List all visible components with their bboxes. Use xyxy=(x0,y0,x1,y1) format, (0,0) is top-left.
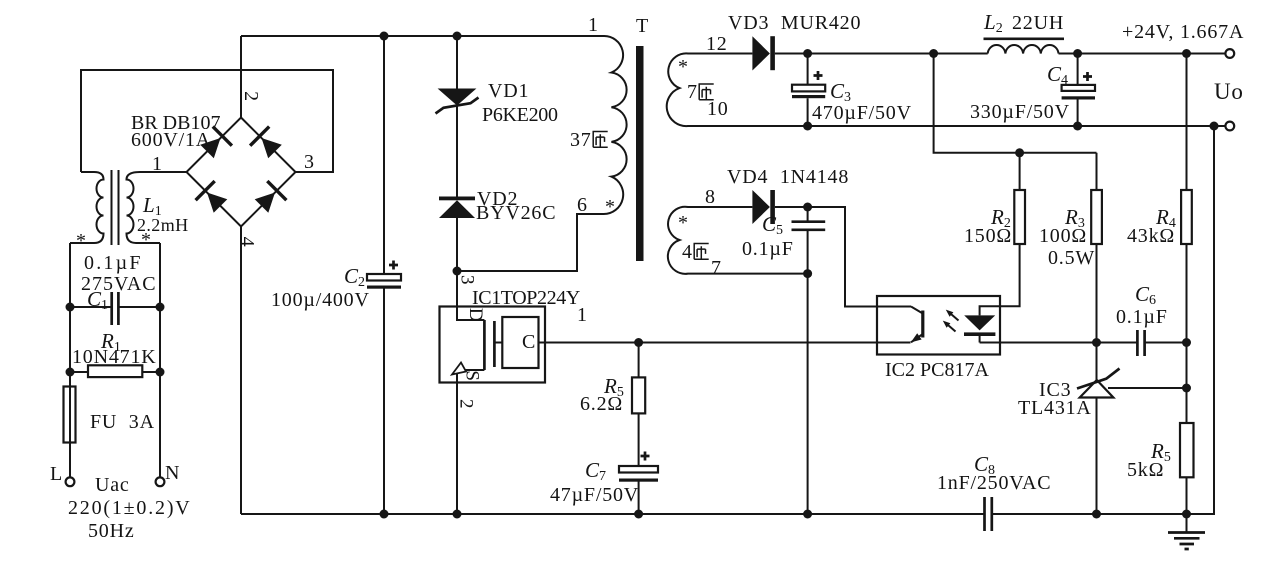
node: junction dot C5 top xyxy=(803,203,812,212)
capacitor C3 negative plate xyxy=(792,95,825,98)
node: junction dot C7 ground xyxy=(634,510,643,519)
svg-text:1: 1 xyxy=(152,153,163,175)
svg-text:7: 7 xyxy=(687,81,698,103)
node: junction dot IC1 source ground xyxy=(453,510,462,519)
terminal N open circle xyxy=(156,477,165,486)
resistor R5 (6.2 ohm) wires xyxy=(638,343,640,467)
transformer T secondary 4-turn bias winding xyxy=(668,207,808,274)
svg-text:VD1: VD1 xyxy=(488,80,529,102)
wire: IC1 pin 1 control wire across to optocoupler emitter xyxy=(539,342,911,344)
svg-text:12: 12 xyxy=(706,33,728,55)
svg-text:*: * xyxy=(76,230,87,252)
svg-text:6.2Ω: 6.2Ω xyxy=(580,393,623,415)
inductor L1 left winding (common-mode choke) xyxy=(70,172,104,243)
resistor R5 (5k) body xyxy=(1180,423,1194,477)
svg-text:100Ω: 100Ω xyxy=(1039,225,1087,247)
node: junction dot bias return ground xyxy=(803,510,812,519)
shunt regulator IC3 TL431A triangle xyxy=(1080,380,1114,398)
capacitor C5 wires xyxy=(807,207,809,274)
svg-text:N: N xyxy=(165,462,180,484)
svg-text:IC2 PC817A: IC2 PC817A xyxy=(885,359,989,381)
svg-text:47µF/50V: 47µF/50V xyxy=(550,484,639,506)
wire: gate to control block xyxy=(494,342,502,344)
node: junction dot 0V rail corner xyxy=(1210,122,1219,131)
capacitor C7 negative plate xyxy=(619,479,658,482)
svg-text:+24V, 1.667A: +24V, 1.667A xyxy=(1122,21,1244,43)
node: junction dot ref/divider xyxy=(1182,384,1191,393)
svg-text:10N471K: 10N471K xyxy=(72,346,157,368)
resistor R4 wires xyxy=(1186,54,1188,424)
svg-text:FU 3A: FU 3A xyxy=(90,411,155,433)
svg-text:22UH: 22UH xyxy=(1012,12,1064,34)
IC1 control block box with C pin xyxy=(502,317,538,368)
capacitor C3 positive plate xyxy=(792,85,825,92)
diode VD2 cathode bar xyxy=(439,197,475,201)
transistor inside IC2: collector lead xyxy=(911,307,923,314)
svg-text:330µF/50V: 330µF/50V xyxy=(970,101,1070,123)
wire: C1 box right edge down to N terminal xyxy=(159,243,161,477)
wire: R5 (5k) to ground rail xyxy=(1186,477,1188,514)
terminal 0V open circle xyxy=(1225,122,1234,131)
light arrow 2 head xyxy=(943,321,951,328)
wire: bridge corner 4 down to primary ground rail xyxy=(240,227,242,515)
node: junction dot R1 left xyxy=(66,368,75,377)
terminal +24V open circle xyxy=(1225,49,1234,58)
wire: primary ground rail to C8 xyxy=(241,513,985,515)
optocoupler IC2 PC817A box xyxy=(877,296,1000,355)
diode bridge arm top-left xyxy=(200,138,220,158)
svg-text:4: 4 xyxy=(236,237,258,248)
svg-text:7: 7 xyxy=(711,257,722,279)
inductor L1 right winding xyxy=(127,172,187,243)
wire: top rail down to bridge corner 2 xyxy=(240,36,242,118)
fuse FU body xyxy=(64,387,76,443)
node: junction dot TL431 cathode on feedback wire xyxy=(1092,338,1101,347)
svg-text:IC1TOP224Y: IC1TOP224Y xyxy=(472,287,580,309)
svg-text:3: 3 xyxy=(304,151,315,173)
capacitor C2 positive plate xyxy=(367,274,401,281)
wire: L2 to +24V terminal xyxy=(1059,53,1226,55)
capacitor C4 wires xyxy=(1077,54,1079,127)
diode VD2 triangle xyxy=(439,200,475,218)
node: junction dot R1 right xyxy=(156,368,165,377)
varistor R1 body xyxy=(88,365,142,377)
shunt regulator IC3 TL431A cathode bar xyxy=(1077,369,1120,389)
svg-text:L: L xyxy=(50,463,63,485)
node: junction dot R2 top xyxy=(1015,148,1024,157)
svg-text:150Ω: 150Ω xyxy=(964,225,1012,247)
TVS diode VD1 triangle xyxy=(438,89,477,106)
inductor L2 winding bumps xyxy=(988,45,1059,53)
capacitor C5 plates xyxy=(792,222,826,230)
wire: VD3 cathode to L2 xyxy=(775,53,988,55)
svg-text:VD3 MUR420: VD3 MUR420 xyxy=(728,12,861,34)
capacitor C4 negative plate xyxy=(1062,96,1095,99)
transformer T core bar xyxy=(636,46,644,261)
plus sign C2 xyxy=(389,261,398,270)
resistor R4 body xyxy=(1181,190,1192,244)
wire: feedback tap down and across to R2/R3 xyxy=(934,54,1097,153)
ground symbol xyxy=(1186,514,1188,532)
svg-text:T: T xyxy=(636,15,649,37)
resistor R3 body xyxy=(1091,190,1102,244)
terminal L open circle xyxy=(66,477,75,486)
plus sign C3 xyxy=(814,71,823,80)
node: junction dot C4 tap xyxy=(1073,49,1082,58)
wire: IC1 pin 3 drain entry xyxy=(457,271,484,320)
diode bridge arm bottom-left xyxy=(207,193,227,213)
svg-text:5kΩ: 5kΩ xyxy=(1127,459,1164,481)
svg-text:C: C xyxy=(522,331,536,353)
svg-text:*: * xyxy=(678,212,689,234)
wire: primary top rail from bridge + output into transformer pin 1, primary winding of T, down to pin 6 elbow and IC1 drain node xyxy=(241,36,627,271)
LED inside IC2 triangle xyxy=(964,315,995,330)
wire: routing box from bridge corner 3 up over to L1 left winding top xyxy=(81,70,333,172)
diode bridge arm top-right xyxy=(262,138,282,158)
node: junction dot C4 on 0V rail xyxy=(1073,122,1082,131)
LED inside IC2 cathode bar xyxy=(964,332,995,336)
svg-text:*: * xyxy=(141,229,152,251)
svg-text:0.5W: 0.5W xyxy=(1048,247,1095,269)
wire: IC1 source lead to pin 2 xyxy=(457,370,484,514)
svg-text:37: 37 xyxy=(570,129,592,151)
diode VD3 MUR420 triangle xyxy=(752,36,770,70)
transformer T secondary 7-turn winding and 0V rail to output terminal xyxy=(667,53,1226,126)
svg-text:6: 6 xyxy=(577,194,588,216)
wire: LED cathode down to feedback wire xyxy=(979,336,981,343)
svg-text:VD4 1N4148: VD4 1N4148 xyxy=(727,166,849,188)
svg-text:S: S xyxy=(462,370,483,381)
capacitor C1 plates xyxy=(112,292,119,325)
wire: C1 box left edge down to L terminal xyxy=(69,243,71,477)
svg-text:10: 10 xyxy=(707,98,729,120)
light arrow 1 shaft xyxy=(949,312,959,321)
transistor inside IC2: base bar xyxy=(921,311,924,338)
svg-text:1nF/250VAC: 1nF/250VAC xyxy=(937,472,1051,494)
node: junction dot C2 tap on top rail xyxy=(380,32,389,41)
TVS diode VD1 zener bar xyxy=(436,98,479,114)
bridge rectifier BR DB107 diamond xyxy=(187,118,296,227)
svg-text:0.1µF: 0.1µF xyxy=(84,252,143,274)
svg-text:8: 8 xyxy=(705,186,716,208)
capacitor C2 wires xyxy=(383,36,385,514)
wire: TL431 anode to ground rail xyxy=(1096,398,1098,515)
node: junction dot C3 tap on +V rail xyxy=(803,49,812,58)
capacitor C4 positive plate xyxy=(1062,85,1095,91)
svg-text:600V/1A: 600V/1A xyxy=(131,129,211,151)
plus sign C7 xyxy=(641,452,650,461)
resistor R5 (6.2 ohm) body xyxy=(632,377,645,413)
node: junction dot R5 ground xyxy=(1182,510,1191,519)
capacitor C3 wires xyxy=(807,54,809,127)
svg-text:1: 1 xyxy=(588,14,599,36)
svg-text:3: 3 xyxy=(457,275,478,285)
node: junction dot R5 tap on control wire xyxy=(634,338,643,347)
wire: VD2 anode down to drain node xyxy=(456,218,458,271)
transistor Q inside IC1: source arrow xyxy=(452,363,466,375)
svg-text:TL431A: TL431A xyxy=(1018,397,1092,419)
inductor L2 label underline xyxy=(984,37,1065,40)
svg-text:220(1±0.2)V: 220(1±0.2)V xyxy=(68,497,192,519)
svg-text:2: 2 xyxy=(456,399,477,409)
plus sign C4 xyxy=(1083,72,1092,81)
capacitor C6 plates xyxy=(1137,330,1144,356)
resistor R2 body xyxy=(1014,190,1025,244)
svg-text:BYV26C: BYV26C xyxy=(476,202,556,224)
wire: VD4 cathode across and down to optocoupler collector xyxy=(775,207,911,307)
resistor R2 wires xyxy=(980,153,1020,316)
node: junction dot R4 tap xyxy=(1182,49,1191,58)
node: junction dot bias winding return xyxy=(803,269,812,278)
diode VD4 cathode bar xyxy=(770,190,775,224)
capacitor C8 plates xyxy=(985,497,992,531)
svg-text:D: D xyxy=(465,308,486,322)
TVS diode VD1 wires xyxy=(456,36,458,197)
transistor Q inside IC1: drain bar xyxy=(483,320,486,370)
node: junction dot VD1 tap on top rail xyxy=(453,32,462,41)
svg-text:1: 1 xyxy=(577,304,588,326)
node: junction dot C1 left xyxy=(66,303,75,312)
node: junction dot C1 right xyxy=(156,303,165,312)
varistor R1 row wire xyxy=(70,371,160,373)
diode VD3 cathode bar xyxy=(770,36,775,70)
wire: C6 right to divider node xyxy=(1145,342,1187,344)
svg-text:50Hz: 50Hz xyxy=(88,520,135,542)
resistor R3 wires xyxy=(1096,153,1098,383)
svg-text:2: 2 xyxy=(240,91,262,102)
light arrow 1 head xyxy=(946,310,954,317)
wire: TL431 ref to divider xyxy=(1108,387,1187,389)
svg-text:Uo: Uo xyxy=(1214,79,1244,104)
svg-text:0.1µF: 0.1µF xyxy=(742,238,794,260)
svg-text:*: * xyxy=(678,56,689,78)
capacitor C7 positive plate xyxy=(619,466,658,473)
svg-text:P6KE200: P6KE200 xyxy=(482,104,558,126)
node: junction dot C3 on 0V rail xyxy=(803,122,812,131)
transistor inside IC2: emitter arrow xyxy=(911,333,922,342)
svg-text:*: * xyxy=(605,196,616,218)
node: junction dot drain node (IC1 pin 3) xyxy=(453,267,462,276)
capacitor C2 negative plate xyxy=(367,286,401,289)
node: junction dot C2 ground xyxy=(380,510,389,519)
node: junction dot divider node at C6 xyxy=(1182,338,1191,347)
light arrow 2 shaft xyxy=(946,323,956,332)
svg-text:100µ/400V: 100µ/400V xyxy=(271,289,370,311)
inductor L1 core lines xyxy=(111,170,113,245)
transistor Q inside IC1: gate bar xyxy=(493,321,496,367)
capacitor C1 row wires xyxy=(70,306,160,308)
svg-text:4: 4 xyxy=(682,241,693,263)
diode bridge arm bottom-right xyxy=(255,193,275,213)
op-amp/regulator IC1 TOP224Y outer box xyxy=(440,307,546,383)
turns glyph for primary xyxy=(593,132,608,148)
wire: C7 to ground rail xyxy=(638,482,640,515)
svg-text:43kΩ: 43kΩ xyxy=(1127,225,1175,247)
diode VD4 1N4148 triangle xyxy=(752,190,770,224)
svg-text:Uac: Uac xyxy=(95,474,130,496)
svg-text:470µF/50V: 470µF/50V xyxy=(812,102,912,124)
transistor inside IC2: emitter lead xyxy=(911,334,923,342)
svg-text:0.1µF: 0.1µF xyxy=(1116,306,1168,328)
node: junction dot feedback tap on +V rail xyxy=(929,49,938,58)
wire: secondary ground rail from C8 up to 0V output xyxy=(992,126,1214,514)
wire: bias return down to primary ground rail xyxy=(807,274,809,514)
wire: LED cathode wire to C6 xyxy=(980,342,1138,344)
node: junction dot TL431 anode ground xyxy=(1092,510,1101,519)
